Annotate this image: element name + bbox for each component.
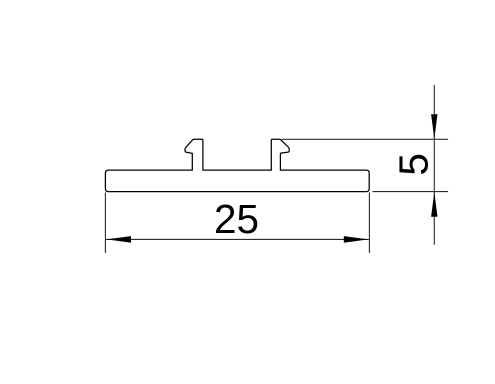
dimension 25: dimension line [106, 238, 369, 240]
dimension 25: right extension line [368, 193, 370, 254]
dimension 5: lower arrowhead (points up) [431, 192, 437, 217]
dimension 25: right arrowhead [344, 236, 369, 243]
dimension 5: dimension line [433, 85, 435, 245]
dimension 25: left arrowhead [107, 236, 132, 243]
dimension 25: left extension line [104, 193, 106, 254]
dimension 5: top extension line [282, 138, 449, 140]
dimension 5: bottom extension line [373, 191, 449, 193]
profile outline (25x5 extrusion cross-section with two barbed tabs) [105, 139, 369, 191]
svg-text:25: 25 [214, 196, 259, 242]
svg-text:5: 5 [391, 153, 437, 176]
dimension 5: upper arrowhead (points down) [431, 114, 437, 139]
